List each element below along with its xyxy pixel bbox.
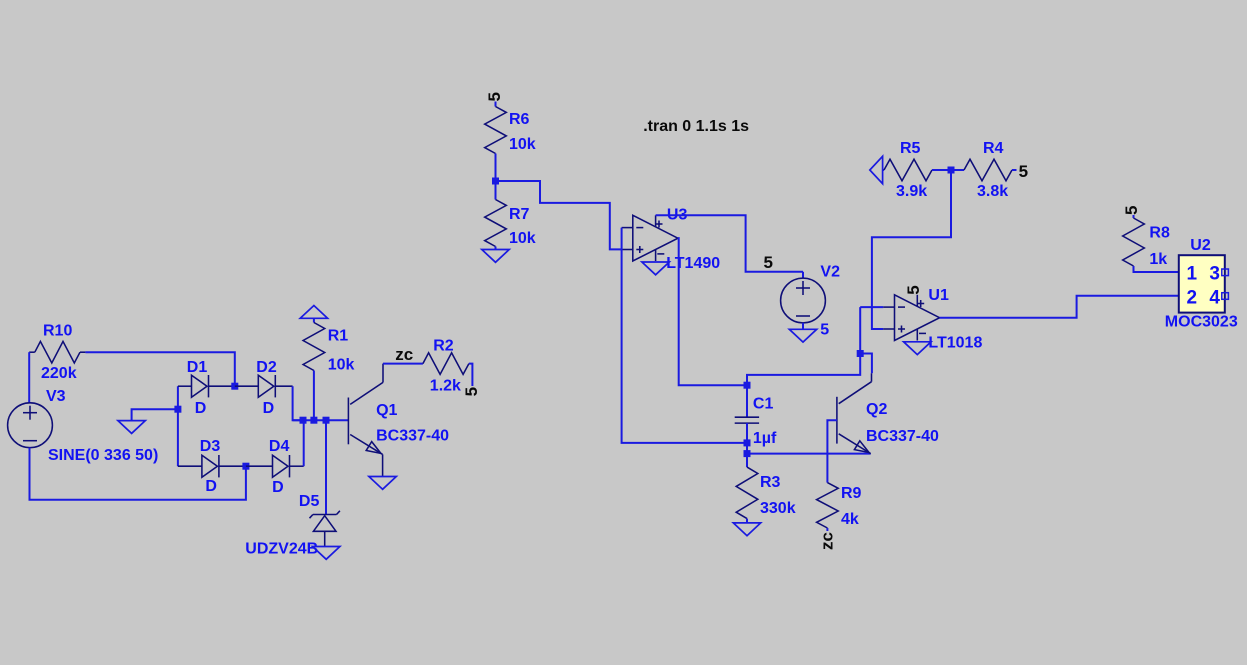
junction plus row B (310, 417, 317, 424)
junction D1-D2 (231, 383, 238, 390)
resistor R10 (29, 323, 85, 383)
optocoupler U2 (1165, 237, 1238, 331)
wire R2 right down (469, 364, 473, 386)
diode D2 (235, 359, 293, 417)
ground flag below U1 (904, 342, 931, 355)
transistor Q1 (348, 364, 449, 477)
svg-text:5: 5 (904, 285, 923, 294)
U2 pin 2 number (1187, 288, 1198, 309)
junction left rail (174, 406, 181, 413)
resistor R8 (1123, 218, 1170, 268)
svg-text:R3: R3 (760, 474, 781, 491)
ground flag below U3 (642, 262, 669, 275)
svg-text:C1: C1 (753, 396, 774, 413)
svg-text:5: 5 (820, 321, 829, 338)
wire divider to U3 plus input (496, 181, 622, 249)
U2 pin 3 marker (1222, 269, 1229, 276)
ground flag below D5 (313, 547, 340, 560)
svg-text:1µf: 1µf (753, 430, 777, 447)
diode D3 (178, 438, 246, 495)
wire R10 right to bridge top (85, 352, 234, 386)
svg-text:10k: 10k (509, 230, 536, 247)
voltage source V2 (781, 264, 840, 339)
svg-text:V2: V2 (820, 264, 840, 281)
svg-text:3.8k: 3.8k (977, 183, 1008, 200)
svg-text:U2: U2 (1190, 237, 1211, 254)
U2 pin 3 number (1209, 263, 1220, 284)
junction R6-R7 (492, 178, 499, 185)
net label 5 at R6 top (485, 92, 504, 101)
svg-text:R2: R2 (433, 338, 454, 355)
wire C1 bottom lead (746, 423, 748, 467)
wire Q1 collector to R2 (383, 363, 423, 365)
junction plus row C (323, 417, 330, 424)
wire U3 Vplus to V2 (656, 215, 803, 271)
diode D1 (178, 359, 235, 417)
wire R9 bottom stub (826, 528, 828, 531)
ground flag below R3 (733, 523, 760, 536)
svg-text:5: 5 (485, 92, 504, 101)
svg-text:UDZV24B: UDZV24B (245, 541, 318, 558)
wire R6 top stub (495, 102, 497, 107)
svg-text:3.9k: 3.9k (896, 183, 927, 200)
wire U3 minus input down to C1 node (622, 228, 747, 443)
ground flag left of R5 (870, 156, 883, 183)
ground flag below Q1 (369, 477, 396, 490)
wire Q2 base down to R9 (827, 420, 837, 482)
svg-text:4: 4 (1209, 288, 1220, 309)
svg-text:2: 2 (1187, 288, 1198, 309)
svg-text:LT1490: LT1490 (666, 255, 720, 272)
svg-text:.tran 0 1.1s 1s: .tran 0 1.1s 1s (643, 118, 749, 135)
resistor R2 (423, 338, 469, 395)
zener diode D5 (245, 493, 340, 558)
svg-text:D: D (195, 400, 207, 417)
voltage source V3 (8, 388, 159, 464)
diode D4 (246, 438, 304, 496)
U2 pin 4 number (1209, 288, 1220, 309)
svg-text:1.2k: 1.2k (430, 378, 461, 395)
wire bridge plus row to Q1 base (293, 419, 349, 421)
wire R4 right stub (1012, 169, 1017, 171)
wire C1 top to U1 minus path (747, 307, 860, 385)
svg-text:BC337-40: BC337-40 (866, 428, 939, 445)
net label 5 above U1 (904, 285, 923, 294)
junction U1 minus path (857, 350, 864, 357)
wire D2 cathode down to plus row (293, 386, 303, 420)
svg-text:BC337-40: BC337-40 (376, 428, 449, 445)
wire R8 to U2 pin 1 (1134, 266, 1179, 272)
svg-text:zc: zc (395, 345, 413, 364)
op-amp U1 (883, 287, 982, 352)
svg-text:D: D (205, 478, 217, 495)
wire ground tap to left rail (132, 409, 178, 420)
junction C1 bottom (744, 439, 751, 446)
svg-text:R4: R4 (983, 140, 1004, 157)
svg-text:R10: R10 (43, 323, 72, 340)
net label 5 at R4 (1019, 162, 1028, 181)
wire divider to U1 plus input (872, 170, 951, 329)
junction plus row A (300, 417, 307, 424)
wire R5 to R4 (932, 169, 964, 171)
wire bridge left rail (177, 386, 179, 466)
wire C1 top lead (746, 385, 748, 417)
svg-text:1k: 1k (1149, 251, 1167, 268)
svg-text:4k: 4k (841, 511, 859, 528)
svg-text:D4: D4 (269, 438, 290, 455)
net label zc at Q1 (395, 345, 413, 364)
svg-text:5: 5 (462, 387, 481, 396)
wire U1 output to U2 pin 2 (940, 296, 1179, 318)
resistor R5 (883, 140, 932, 200)
wire R1 bottom to plus row (313, 371, 315, 421)
ground flag bridge left (118, 421, 145, 434)
resistor R1 (303, 318, 354, 373)
svg-text:R9: R9 (841, 485, 862, 502)
svg-text:R6: R6 (509, 111, 530, 128)
wire R8 top stub (1133, 215, 1135, 218)
svg-text:5: 5 (1122, 206, 1141, 215)
wire V2 top stub (802, 272, 804, 278)
wire U3 output down to C1 top (678, 238, 747, 385)
junction R3 top (744, 450, 751, 457)
net label 5 at R8 top (1122, 206, 1141, 215)
wire R3 to ground (746, 519, 748, 523)
resistor R3 (736, 467, 795, 518)
resistor R4 (964, 140, 1012, 200)
resistor R6 (485, 107, 536, 154)
svg-text:R8: R8 (1149, 225, 1170, 242)
net label 5 at R2 (462, 387, 481, 396)
svg-text:D5: D5 (299, 493, 320, 510)
svg-text:5: 5 (764, 253, 773, 272)
svg-text:V3: V3 (46, 388, 66, 405)
U2 pin 4 marker (1222, 293, 1229, 300)
resistor R9 (817, 483, 862, 528)
svg-text:SINE(0 336 50): SINE(0 336 50) (48, 447, 158, 464)
svg-text:U1: U1 (928, 287, 949, 304)
wire R6 to R7 (495, 154, 497, 200)
ground flag below V2 (789, 329, 816, 342)
wire C1 node to Q2 emitter (747, 453, 871, 455)
transistor Q2 (837, 373, 939, 453)
svg-text:Q1: Q1 (376, 402, 397, 419)
svg-text:10k: 10k (509, 136, 536, 153)
svg-text:R7: R7 (509, 206, 530, 223)
wire R7 to ground (495, 247, 497, 250)
svg-text:R5: R5 (900, 140, 921, 157)
wire to U1 minus input (860, 306, 883, 308)
svg-text:R1: R1 (328, 328, 349, 345)
wire V2 bottom stub (802, 323, 804, 329)
wire R10 left to V3 plus (28, 352, 30, 403)
svg-text:D1: D1 (187, 359, 208, 376)
junction D3-D4 (242, 463, 249, 470)
wire D4 cathode up to plus row (303, 420, 305, 466)
svg-text:MOC3023: MOC3023 (1165, 314, 1238, 331)
svg-text:D: D (263, 400, 275, 417)
svg-text:1: 1 (1187, 263, 1198, 284)
wire V3 minus to D3-D4 node (30, 448, 246, 500)
svg-text:Q2: Q2 (866, 401, 887, 418)
svg-text:10k: 10k (328, 357, 355, 374)
junction R5-R4 (948, 167, 955, 174)
op-amp U3 (622, 207, 721, 273)
svg-text:220k: 220k (41, 365, 77, 382)
net label 5 at V2 wire (764, 253, 773, 272)
U2 pin 1 number (1187, 263, 1198, 284)
junction C1 top (744, 382, 751, 389)
resistor R7 (485, 200, 536, 248)
svg-text:LT1018: LT1018 (928, 335, 982, 352)
spice directive .tran (643, 118, 749, 135)
svg-text:5: 5 (1019, 162, 1028, 181)
wire plus row down to D5 (325, 420, 327, 514)
svg-text:zc: zc (818, 532, 837, 550)
svg-text:D2: D2 (256, 359, 277, 376)
power flag above R1 (300, 306, 327, 319)
svg-text:330k: 330k (760, 500, 796, 517)
svg-text:3: 3 (1209, 263, 1220, 284)
ground flag below R7 (482, 250, 509, 263)
svg-text:D: D (272, 479, 284, 496)
svg-text:D3: D3 (200, 438, 221, 455)
wire junction to Q2 collector (860, 354, 872, 374)
net label zc at R9 (818, 532, 837, 550)
capacitor C1 (735, 396, 777, 448)
